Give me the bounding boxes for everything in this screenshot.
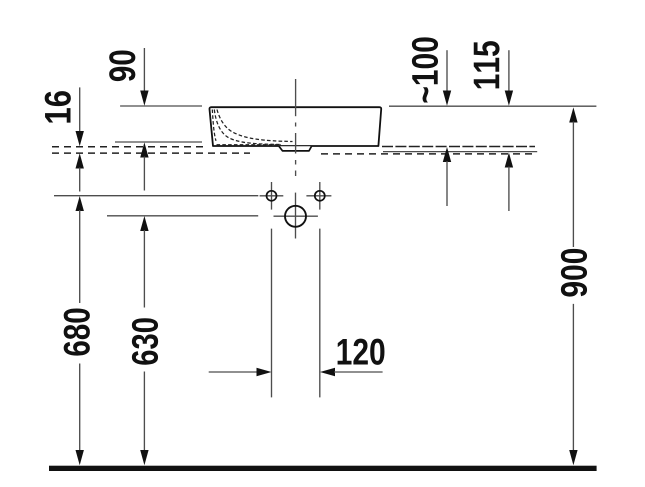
dim 115 dimension line upper with down arrow [508, 50, 510, 91]
rim plane extent line right [389, 105, 596, 107]
dim 16 dimension line upper with down arrow [79, 87, 81, 132]
right faucet hole circle [315, 191, 325, 201]
left faucet hole circle [267, 191, 277, 201]
dim 120 left line with right arrow [209, 371, 258, 373]
extent line for dim 630 [107, 215, 258, 217]
right faucet hole crosshair [306, 182, 331, 210]
dim 115 label [474, 41, 500, 88]
dim 680 label [64, 309, 90, 356]
dim 16 dimension line lower with up arrow [76, 153, 84, 168]
countertop solid line right [383, 151, 537, 153]
dim 680 dimension line with down arrow at floor [79, 364, 81, 452]
dim 90 dimension line upper with down arrow [143, 48, 145, 92]
left faucet hole crosshair [260, 182, 284, 210]
dim 630 dimension line with down arrow at floor [143, 372, 145, 452]
dim 90 dimension line lower with up arrow [140, 142, 148, 157]
dim 115 dimension line lower with up arrow [505, 153, 513, 168]
dim 900 dimension line with up arrow at rim [569, 107, 577, 122]
dim 900 label [561, 249, 587, 297]
centre line (dash-dot) [295, 79, 297, 176]
dim 680 dimension line with up arrow at extent [76, 196, 84, 211]
basin bottom extent line for dim 90 [115, 141, 202, 143]
dim ~100 dimension line upper with down arrow [446, 50, 448, 91]
basin inner bowl hidden line 2 [214, 110, 281, 145]
basin outline [209, 107, 381, 146]
drain fitting notch [279, 146, 312, 151]
dim 900 dimension line with down arrow at floor [572, 304, 574, 451]
extent line for dim 680 [54, 195, 258, 197]
hole extension line left [271, 229, 273, 398]
hole extension line right [319, 229, 321, 398]
rim plane extent line left [120, 105, 202, 107]
dim 120 label [338, 339, 385, 365]
dim ~100 label [412, 37, 438, 102]
countertop dashed line B left [52, 152, 250, 154]
countertop dashed line B right [321, 153, 535, 155]
basin inner bottom hidden line [217, 144, 282, 146]
drain hole circle [285, 206, 306, 227]
countertop dashed line A right [382, 146, 535, 148]
dim 120 right line with left arrow [320, 368, 335, 376]
dim 630 dimension line with up arrow at extent [140, 216, 148, 231]
basin inner bowl hidden line 3 [217, 110, 293, 142]
floor line [49, 466, 597, 471]
drain hole crosshair [274, 193, 318, 239]
dim 90 label [109, 50, 135, 81]
dim 16 label [45, 91, 71, 122]
basin inner bowl hidden line 1 [212, 110, 216, 141]
countertop dashed line A left [52, 146, 207, 148]
dim ~100 dimension line lower with up arrow [443, 147, 451, 162]
dim 630 label [132, 318, 158, 365]
